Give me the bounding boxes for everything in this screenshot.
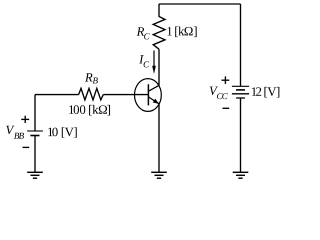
wire left vertical (Vbb bottom to ground)	[34, 136, 36, 173]
transistor Q1 emitter diagonal	[148, 97, 159, 104]
label 1 [kOhm]	[167, 27, 196, 38]
battery VCC short plate 2	[236, 97, 245, 99]
ground left	[27, 172, 43, 178]
label V_CC	[210, 87, 228, 100]
label 12 [V]	[252, 87, 279, 98]
wire collector (Rc to transistor)	[158, 49, 160, 85]
resistor RB zigzag	[79, 88, 104, 100]
ground right	[233, 172, 249, 178]
battery VCC long plate 2	[232, 93, 249, 95]
label 10 [V]	[48, 127, 77, 138]
battery VCC short plate 1	[236, 89, 245, 91]
battery VCC long plate 1	[232, 85, 249, 87]
label R_B	[85, 73, 98, 83]
wire collector top (to Rc)	[158, 4, 160, 17]
label R_C	[137, 27, 150, 39]
minus sign VBB	[23, 146, 30, 148]
label 100 [kOhm]	[69, 105, 110, 116]
wire left vertical (Vbb top)	[34, 95, 36, 131]
resistor RC zigzag	[153, 17, 165, 50]
current arrow IC shaft	[153, 51, 155, 68]
label I_C	[139, 55, 149, 67]
wire top horizontal	[159, 3, 241, 5]
minus sign VCC	[223, 107, 230, 109]
plus sign VCC	[222, 76, 230, 84]
wire right vertical (Vcc top)	[240, 4, 242, 86]
transistor Q1 base bar	[147, 84, 149, 105]
wire emitter vertical to ground	[158, 104, 160, 173]
wire right vertical (Vcc bottom to ground)	[240, 98, 242, 172]
transistor Q1 emitter arrowhead	[153, 99, 159, 104]
ground middle	[151, 172, 167, 178]
transistor Q1 circle	[135, 79, 162, 112]
label V_BB	[6, 126, 24, 139]
plus sign VBB	[21, 116, 29, 123]
wire base horizontal left segment	[35, 94, 79, 96]
wire base horizontal right segment	[103, 94, 148, 96]
transistor Q1 collector diagonal	[148, 85, 159, 91]
battery VBB long plate	[27, 130, 43, 132]
battery VBB short plate	[30, 135, 39, 137]
current arrow IC head	[152, 66, 156, 74]
